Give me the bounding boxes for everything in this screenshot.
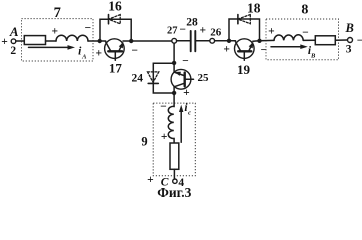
box 7 label	[54, 5, 61, 21]
transistor 17 collector lead with arrow	[119, 43, 123, 51]
svg-text:28: 28	[186, 16, 198, 28]
junction dot left of transistor 17	[98, 39, 102, 43]
transistor 19 label	[237, 62, 251, 77]
wire coil 9 to resistor	[173, 138, 175, 143]
terminal A circle	[11, 39, 16, 44]
diode 18 triangle (dashed)	[238, 15, 250, 24]
current arrow iA	[29, 46, 69, 48]
diode 16 bypass loop	[100, 19, 131, 41]
inductor coil in box 7	[56, 35, 88, 41]
wire into box 8	[260, 39, 275, 41]
svg-text:−: −	[182, 56, 189, 68]
svg-text:26: 26	[210, 26, 222, 38]
transistor 25 base bar	[183, 73, 185, 87]
transistor 25 emitter lead with arrow	[175, 73, 184, 76]
dashed box 9	[153, 103, 195, 176]
node 26 circle	[210, 38, 215, 43]
svg-text:+: +	[223, 44, 230, 56]
transistor 19 circle	[235, 39, 255, 59]
svg-text:+: +	[1, 36, 8, 48]
inductor coil in box 8	[274, 35, 303, 41]
current arrow iB	[271, 46, 301, 48]
svg-text:c: c	[188, 109, 191, 116]
minus sign right of transistor 19	[261, 45, 268, 57]
capacitor 28 plates	[190, 31, 192, 51]
junction dot bottom of transistor 25	[172, 91, 176, 95]
junction dot right of transistor 19	[257, 39, 261, 43]
svg-text:+: +	[183, 87, 190, 99]
node A plus sign	[1, 36, 8, 48]
svg-text:Фиг.3: Фиг.3	[157, 185, 191, 198]
terminal C circle	[173, 179, 177, 183]
dashed box 7	[22, 19, 94, 61]
svg-text:2: 2	[10, 45, 16, 57]
transistor 17 emitter lead	[106, 42, 111, 51]
wire coil to transistor 17	[88, 40, 106, 42]
resistor in box 8	[315, 36, 335, 45]
minus sign top of coil 9	[160, 101, 167, 113]
svg-text:16: 16	[108, 0, 122, 14]
svg-text:19: 19	[237, 62, 251, 77]
svg-text:24: 24	[131, 73, 143, 85]
box 9 label	[141, 135, 147, 149]
terminal 2 label	[10, 45, 16, 57]
transistor 19 base stub	[243, 53, 245, 61]
node 27 label	[167, 26, 178, 37]
svg-text:+: +	[268, 25, 275, 37]
node 27 circle	[172, 38, 177, 43]
diode 24 triangle (dashed)	[148, 72, 159, 83]
svg-text:−: −	[179, 24, 186, 36]
svg-text:B: B	[310, 53, 316, 60]
minus sign at top of center branch	[182, 56, 189, 68]
diode 16 triangle (dashed)	[109, 15, 121, 24]
junction dot left of transistor 19	[227, 39, 231, 43]
transistor 19 emitter lead	[236, 42, 241, 51]
minus sign right of transistor 17	[131, 45, 138, 57]
svg-text:A: A	[9, 24, 19, 39]
node A label	[9, 24, 19, 39]
svg-text:17: 17	[109, 60, 123, 75]
diode 18 label	[247, 1, 261, 16]
transistor 17 base stub	[114, 53, 116, 61]
svg-text:+: +	[161, 131, 168, 143]
minus sign left of capacitor 28	[179, 24, 186, 36]
wire capacitor to node 26	[195, 40, 210, 42]
diode 18 bypass loop	[229, 19, 260, 41]
svg-text:−: −	[131, 45, 138, 57]
wire coil 8 to resistor	[303, 39, 315, 41]
svg-text:18: 18	[247, 1, 261, 16]
svg-text:9: 9	[141, 135, 147, 149]
transistor 19 collector lead with arrow	[249, 43, 253, 51]
svg-text:−: −	[160, 101, 167, 113]
node 26 label	[210, 26, 222, 38]
svg-text:A: A	[81, 54, 87, 61]
diode 16 label	[108, 0, 122, 14]
wire node 27 down to center branch	[173, 43, 175, 63]
box 8 label	[301, 3, 308, 18]
terminal B circle	[348, 38, 353, 43]
plus sign right of capacitor 28	[200, 25, 207, 37]
plus sign below transistor 25	[183, 87, 190, 99]
plus sign at terminal C	[147, 174, 154, 186]
transistor 25 label	[198, 72, 210, 84]
wire A to resistor	[16, 40, 25, 42]
svg-text:B: B	[345, 21, 354, 35]
plus sign left of transistor 19	[223, 44, 230, 56]
svg-text:+: +	[52, 25, 59, 37]
wire junction into box 9	[173, 93, 175, 107]
svg-text:27: 27	[167, 26, 178, 37]
dashed box 8	[266, 19, 339, 60]
wire resistor to terminal C	[173, 169, 175, 179]
wire node 26 to transistor 19	[215, 40, 236, 42]
diode 24 label	[131, 73, 143, 85]
svg-text:−: −	[357, 35, 362, 47]
wire resistor to terminal B	[335, 39, 347, 41]
junction dot top of center branch	[172, 61, 176, 65]
wire transistor 17 to node 27	[123, 40, 172, 42]
plus sign above coil 7	[52, 25, 59, 37]
wire transistor 25 to junction	[173, 63, 175, 72]
wire transistor 19 to junction	[253, 40, 260, 42]
label iA	[78, 45, 87, 60]
transistor 25 circle	[171, 69, 191, 89]
svg-text:+: +	[147, 174, 154, 186]
resistor in box 7	[24, 36, 45, 45]
plus sign above coil 8	[268, 25, 275, 37]
plus sign left of transistor 17	[96, 47, 103, 59]
minus sign above coil 7	[85, 23, 92, 35]
transistor 25 collector lead	[174, 83, 184, 86]
label iB	[308, 45, 316, 60]
svg-text:8: 8	[301, 3, 308, 18]
diode 16 cathode bar	[108, 15, 110, 24]
minus sign above coil 8	[302, 27, 309, 39]
resistor in box 9	[170, 143, 179, 169]
transistor 25 base stub	[186, 78, 194, 80]
transistor 19 base bar	[238, 50, 251, 52]
junction dot right of transistor 17	[129, 39, 133, 43]
label iC	[184, 102, 191, 117]
node B label	[345, 21, 354, 35]
svg-text:+: +	[96, 47, 103, 59]
terminal 3 label	[346, 44, 352, 56]
svg-text:7: 7	[54, 5, 61, 21]
minus sign right of terminal B	[357, 35, 362, 47]
capacitor 28 label	[186, 16, 198, 28]
svg-text:+: +	[200, 25, 207, 37]
plus sign bottom of coil 9	[161, 131, 168, 143]
current arrow iC	[180, 112, 182, 143]
svg-text:3: 3	[346, 44, 352, 56]
svg-text:25: 25	[198, 72, 210, 84]
transistor 17 label	[109, 60, 123, 75]
terminal 4 label	[178, 177, 184, 189]
diode 18 cathode bar	[237, 15, 239, 24]
node C label	[161, 177, 169, 189]
svg-text:−: −	[85, 23, 92, 35]
transistor 17 base bar	[108, 50, 122, 52]
inductor coil in box 9	[168, 106, 174, 138]
figure caption	[157, 185, 191, 200]
transistor 17 circle	[105, 39, 125, 59]
wire resistor to coil	[46, 40, 57, 42]
diode 24 cathode bar	[148, 82, 158, 84]
diode 24 bypass loop	[153, 63, 174, 93]
wire node 27 to capacitor	[177, 40, 191, 42]
